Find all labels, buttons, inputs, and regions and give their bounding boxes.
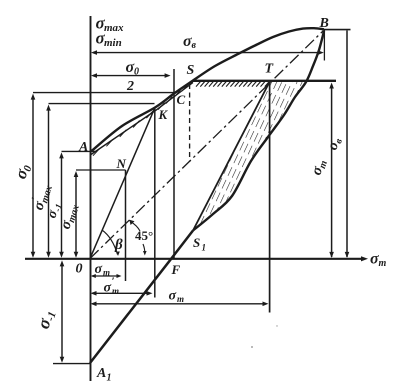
svg-text:m: m (379, 258, 387, 269)
svg-text:N: N (116, 156, 127, 171)
svg-text:β: β (114, 237, 123, 253)
svg-text:σ: σ (104, 281, 112, 296)
svg-text:т: т (177, 294, 184, 304)
svg-text:S: S (187, 63, 195, 78)
svg-text:1: 1 (107, 373, 112, 384)
svg-text:σ: σ (169, 289, 177, 304)
svg-text:0: 0 (134, 67, 139, 78)
svg-text:S: S (193, 235, 200, 250)
svg-text:в: в (192, 40, 197, 51)
svg-text:T: T (265, 62, 275, 77)
svg-text:A: A (96, 366, 106, 381)
svg-text:K: K (158, 107, 169, 122)
svg-text:σ: σ (95, 262, 103, 277)
svg-text:1: 1 (202, 243, 207, 253)
svg-text:m: m (112, 286, 119, 296)
svg-text:F: F (171, 262, 181, 277)
svg-text:B: B (319, 16, 329, 31)
svg-text:45°: 45° (135, 228, 153, 243)
svg-text:max: max (104, 22, 124, 34)
svg-text:0: 0 (76, 262, 83, 277)
svg-text:C: C (177, 92, 186, 107)
svg-text:2: 2 (126, 79, 134, 94)
svg-text:A: A (78, 140, 88, 155)
svg-text:min: min (104, 37, 122, 49)
svg-text:m: m (103, 268, 110, 278)
